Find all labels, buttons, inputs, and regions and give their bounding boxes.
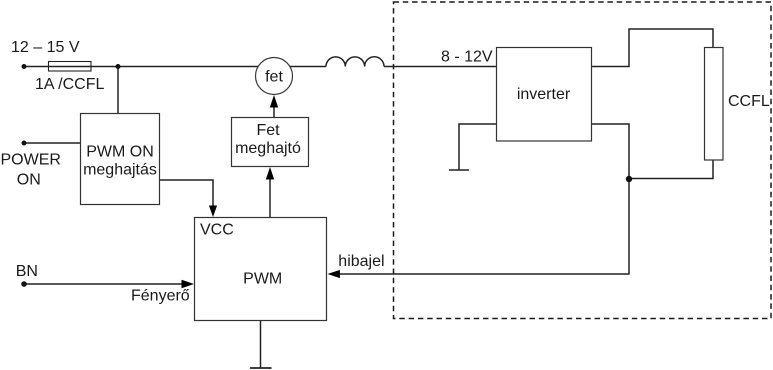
wire BN / Fényerő input [24,283,187,285]
svg-text:meghajtás: meghajtás [83,162,157,179]
svg-text:hibajel: hibajel [338,253,384,270]
svg-text:CCFL: CCFL [728,93,770,110]
box inverter [497,48,592,142]
arrowhead into fet [270,95,278,108]
wire inverter bottom output [591,124,629,179]
fuse F 1A/CCFL [49,62,92,72]
wire branch from junction down to PWM ON box [117,67,119,114]
svg-text:Fényerő: Fényerő [131,288,190,305]
arrowhead into PWM VCC [209,206,217,218]
CCFL lamp [705,48,724,161]
box Fet meghajtó [232,118,309,167]
wire main 12V rail [24,66,326,68]
wire inverter top output to CCFL [591,29,713,67]
wire rail after inductor into inverter [384,66,496,68]
wire CCFL return [629,160,713,179]
arrowhead hibajel into PWM [328,270,340,278]
svg-text:12 – 15 V: 12 – 15 V [11,39,80,56]
ground bar (inverter) [449,169,469,171]
svg-text:PWM ON: PWM ON [86,143,154,160]
node feedback junction [626,176,632,182]
arrowhead into Fet meghajtó [266,167,274,180]
wire PWM ground leg [260,321,262,368]
box PWM ON meghajtás [81,114,160,205]
svg-text:Fet: Fet [256,122,280,139]
wire inverter ground leg [459,124,496,170]
node input 12-15V [22,64,27,69]
box PWM controller [195,218,327,321]
svg-text:POWER: POWER [1,151,61,168]
svg-text:inverter: inverter [517,86,571,103]
inductor L1 [326,57,384,67]
ground bar (PWM) [250,367,272,369]
svg-text:BN: BN [16,263,38,280]
svg-text:ON: ON [17,171,41,188]
svg-text:VCC: VCC [200,222,234,239]
wire POWER ON input [24,142,80,144]
svg-text:PWM: PWM [243,270,282,287]
arrowhead Fényerő into PWM [182,280,195,288]
svg-text:meghajtó: meghajtó [235,140,301,157]
wire hibajel feedback [332,179,629,274]
fuse wire through [48,66,91,68]
dashed enclosure (inverter module boundary) [394,2,772,319]
wire PWM to Fet meghajtó [269,172,271,218]
wire Fet meghajtó to fet [273,100,275,118]
svg-text:fet: fet [265,69,283,86]
svg-text:1A /CCFL: 1A /CCFL [35,76,104,93]
wire PWM ON output to VCC [160,180,213,210]
svg-text:8 - 12V: 8 - 12V [441,49,493,66]
fet pass transistor circle [256,58,293,95]
node POWER ON [22,141,27,146]
node junction after fuse [116,64,121,69]
node BN [21,281,27,287]
